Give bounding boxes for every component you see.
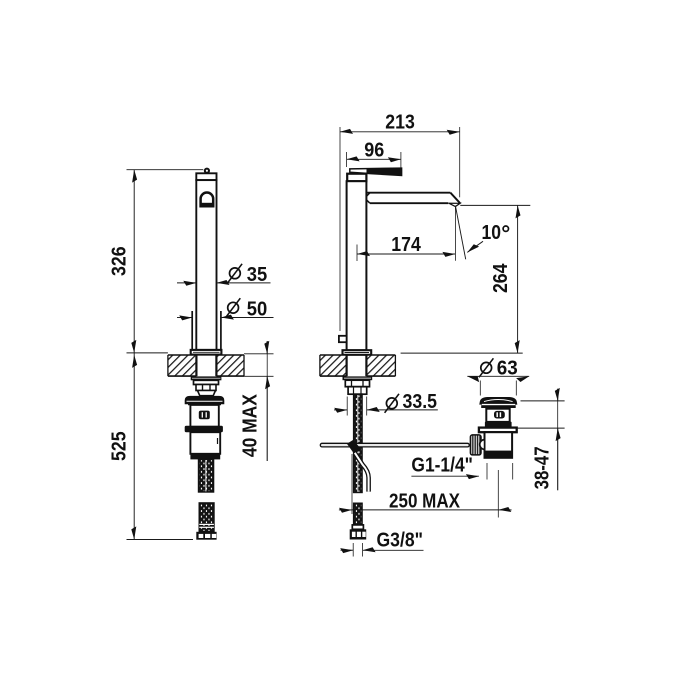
label diameter symbol 63: [481, 362, 492, 373]
extension line cap level: [521, 400, 565, 402]
arrow 326 bottom: [131, 340, 136, 353]
extension line 174 left: [356, 245, 358, 262]
dimension 38-47 line: [557, 389, 559, 401]
braided hose upper left: [199, 459, 214, 492]
svg-text:40 MAX: 40 MAX: [239, 394, 262, 457]
dimension 63 line: [467, 375, 529, 377]
extension line spout level: [460, 204, 530, 206]
arrow 96 left: [347, 156, 360, 161]
drain flange: [479, 428, 517, 433]
deck plate left hatched: [168, 355, 244, 376]
rod knob knurled: [470, 435, 481, 455]
svg-text:213: 213: [385, 111, 415, 134]
extension line 213 left: [339, 127, 341, 331]
faucet base flange side: [343, 350, 372, 355]
arrow 250 left: [339, 509, 352, 511]
angle leader arrow: [467, 241, 483, 252]
svg-text:10: 10: [482, 221, 502, 244]
base sleeve left line: [191, 311, 193, 350]
hose end fitting left: [196, 532, 216, 540]
hose nut washer left: [185, 396, 225, 404]
extension line flange level: [517, 427, 564, 429]
base sleeve right line: [220, 311, 222, 350]
valve body left: [190, 405, 218, 427]
leader G3/8: [363, 549, 424, 551]
popup rod horizontal: [320, 443, 469, 447]
arrow 174 right: [442, 252, 455, 257]
label diameter symbol 33.5: [386, 398, 397, 409]
handle lever side: [350, 168, 402, 175]
svg-text:264: 264: [489, 263, 512, 293]
extension lines 33.5: [346, 397, 348, 416]
extension line 96 left: [346, 152, 348, 167]
extension line 213 right: [459, 127, 461, 197]
mounting nut right: [345, 380, 369, 387]
arrow 63 right: [516, 374, 530, 383]
valve cylinder left: [190, 432, 220, 454]
extension line deck top right: [244, 353, 274, 355]
extension lines drain thread: [486, 463, 488, 480]
outlet angle line: [455, 206, 465, 260]
extension line deck level left: [127, 352, 168, 354]
lower washer left: [185, 426, 223, 433]
svg-text:35: 35: [247, 263, 267, 286]
extension line 174 right: [454, 206, 456, 261]
mounting nut left: [194, 380, 219, 384]
arrow 250 right: [498, 509, 511, 511]
extension line deck bottom right: [244, 375, 274, 377]
arrow 213 left: [340, 129, 353, 134]
dimension 174 line: [357, 253, 455, 255]
extension line rod vertical: [351, 454, 353, 514]
faucet body side: [347, 181, 367, 350]
spout tip nozzle: [449, 203, 460, 206]
drain cap dome: [479, 397, 517, 405]
arrow 96 right: [388, 157, 401, 162]
leader G1-1/4: [411, 475, 479, 477]
label degree symbol: [503, 226, 508, 231]
drain neck: [486, 409, 509, 422]
arrow 264 bottom: [515, 340, 520, 353]
svg-text:96: 96: [364, 138, 384, 161]
dimension 35 leader: [217, 282, 271, 284]
hose coupling right: [352, 525, 363, 529]
spout arm: [366, 192, 450, 194]
svg-text:G1-1/4": G1-1/4": [411, 454, 473, 477]
arrow 326 top: [132, 170, 137, 183]
arrow 40MAX bottom: [265, 376, 270, 389]
drain center line: [497, 470, 499, 518]
svg-text:G3/8": G3/8": [377, 528, 424, 551]
dimension 40 MAX line: [266, 341, 268, 354]
arrow 38-47 top: [555, 388, 560, 401]
hose collar left: [190, 454, 220, 460]
dimension 50 left arrow: [177, 317, 192, 319]
dimension 33.5 leader: [367, 409, 438, 411]
dimension line 326/525 vertical: [133, 170, 135, 540]
svg-text:326: 326: [108, 246, 131, 276]
shank through deck right: [346, 355, 348, 377]
drain cap band: [481, 405, 516, 408]
label diameter symbol 35: [230, 268, 241, 279]
drain upper washer: [485, 422, 512, 428]
supply hose lower right: [354, 503, 362, 525]
dimension 35 left arrow: [177, 282, 196, 284]
extension line top of faucet: [127, 169, 204, 171]
svg-text:38-47: 38-47: [531, 446, 554, 489]
mounting washer left: [191, 376, 222, 380]
dimension 50 leader: [221, 317, 274, 319]
extension lines G3/8: [352, 543, 354, 557]
arrow 174 left: [357, 251, 370, 256]
drain body bottom band: [485, 451, 513, 458]
faucet base flange front: [191, 350, 222, 355]
set screw block: [339, 336, 347, 342]
rod ball housing: [480, 440, 485, 450]
extension line deck level right: [401, 352, 523, 354]
handle cap side: [347, 174, 366, 182]
shank through deck left: [195, 355, 197, 377]
svg-text:250 MAX: 250 MAX: [389, 489, 460, 512]
arrow 38-47 bottom: [556, 428, 561, 441]
extension lines 63: [479, 381, 481, 396]
popup rod bent tube: [355, 453, 369, 492]
arrow 63 left: [467, 374, 481, 383]
dimension 264 line: [517, 205, 519, 353]
mounting washer right: [343, 376, 373, 380]
braided hose lower left: [199, 503, 214, 532]
arrow 264 top: [516, 205, 521, 218]
extension line 96 right: [400, 152, 402, 171]
svg-text:33.5: 33.5: [403, 390, 438, 413]
svg-text:174: 174: [391, 233, 421, 256]
faucet top knob circle: [205, 169, 209, 173]
faucet body front: [196, 180, 216, 350]
supply hose upper right: [354, 394, 362, 492]
arrow 525 bottom: [131, 526, 136, 539]
arrow 40MAX top: [264, 341, 269, 354]
arrow 525 top: [132, 355, 137, 368]
dimension 33.5 left arrow: [334, 409, 347, 411]
dimension 213 line: [340, 131, 460, 133]
deck plate right hatched: [320, 355, 396, 376]
dimension G3/8 arrows: [341, 549, 354, 551]
dimension 96 line: [347, 158, 401, 160]
dimension 250 MAX line: [352, 509, 498, 511]
arrow 213 right: [447, 130, 460, 135]
hose end nut right: [350, 529, 367, 539]
extension line hose end left: [127, 539, 194, 541]
label diameter symbol 50: [228, 302, 239, 313]
svg-text:525: 525: [108, 431, 131, 461]
faucet cap front: [196, 173, 216, 180]
rod clamp: [347, 440, 361, 454]
drain body: [485, 432, 513, 458]
handle front D-shape: [201, 193, 214, 207]
svg-text:50: 50: [247, 298, 267, 321]
